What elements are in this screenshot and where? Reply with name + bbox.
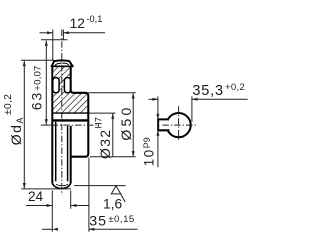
surface finish symbol 1,6 xyxy=(111,186,125,202)
tooth right face upper + hub top edge xyxy=(71,66,89,119)
dimension Ø dA ±0,2 xyxy=(21,60,71,189)
svg-text:±0,15: ±0,15 xyxy=(108,214,134,225)
svg-text:12: 12 xyxy=(70,16,85,31)
bottom crown inner arc right xyxy=(63,184,68,185)
roughness ext line xyxy=(74,185,126,187)
bottom tooth chamfer right xyxy=(68,184,70,187)
tooth gap slot right (white stadium) xyxy=(64,78,70,93)
crown chamfer arc left (eyebrow) xyxy=(55,63,61,65)
dimension 35 ±0,15 xyxy=(42,158,138,232)
dimension Ø50 xyxy=(88,93,135,157)
dimension 24 xyxy=(26,191,89,209)
svg-text:-0,1: -0,1 xyxy=(86,14,102,24)
tooth gap slot left (white stadium) xyxy=(53,78,59,93)
tooth right face lower xyxy=(70,126,72,184)
bore top line (thick) xyxy=(52,119,89,121)
right chamfer line xyxy=(67,126,69,181)
left chamfer line xyxy=(55,122,57,182)
svg-text:63+0,07: 63+0,07 xyxy=(29,65,45,110)
tooth crown outline xyxy=(52,60,73,66)
keyway bottom line xyxy=(52,112,88,114)
dimension 63 +0,07 xyxy=(41,40,68,125)
svg-text:+0,2: +0,2 xyxy=(225,82,245,93)
dimension 10 P9 arrows xyxy=(156,114,159,136)
svg-text:Ø32H7: Ø32H7 xyxy=(93,117,113,159)
tooth centerline (dash-dot vertical) xyxy=(61,30,63,196)
right view: keyway notch xyxy=(158,119,169,130)
axis centerline solid left part (63 ext) xyxy=(41,124,52,126)
hatched gear body section xyxy=(52,66,88,113)
gear left face xyxy=(51,66,53,183)
svg-text:35,3: 35,3 xyxy=(192,83,223,99)
svg-text:1,6: 1,6 xyxy=(103,197,123,212)
axis centerline (dash-dot) xyxy=(52,124,100,126)
right view: bore circle xyxy=(167,113,191,137)
bottom tooth crown arc xyxy=(55,187,69,189)
crown base line xyxy=(52,65,73,67)
dimension 12 -0,1 xyxy=(40,30,106,61)
bottom crown inner arc left xyxy=(56,184,61,185)
dimension Ø32 H7 xyxy=(111,113,114,157)
svg-text:24: 24 xyxy=(28,189,44,204)
keyway line extension (ext for bore dim) xyxy=(88,112,115,114)
svg-text:35: 35 xyxy=(89,214,107,230)
svg-text:10P9: 10P9 xyxy=(141,137,156,166)
dimension 35,3 +0,2 xyxy=(149,96,248,167)
right view: centerline cross xyxy=(162,124,197,126)
hub right face lower + hub bottom edge xyxy=(70,119,88,157)
bottom tooth chamfer left xyxy=(52,184,55,187)
svg-text:ØdA±0,2: ØdA±0,2 xyxy=(3,94,25,146)
svg-text:Ø50: Ø50 xyxy=(118,105,134,141)
crown chamfer arc right (eyebrow) xyxy=(63,63,69,65)
